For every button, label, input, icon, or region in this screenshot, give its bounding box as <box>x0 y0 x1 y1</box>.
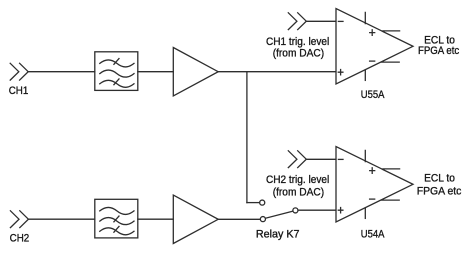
U55A - output pin wire <box>382 61 400 63</box>
wire CH2 input to filter FL2 <box>28 218 94 220</box>
relay K7 common contact <box>293 208 298 213</box>
amplifier A2 <box>173 195 218 243</box>
U54A negative supply pin <box>364 208 366 218</box>
label CH2 trig. level (from DAC) <box>266 174 329 198</box>
U54A + output sign <box>370 168 375 174</box>
svg-text:(from DAC): (from DAC) <box>273 48 324 60</box>
wire relay common to U54A + input <box>298 209 336 211</box>
label ECL to FPGA etc (lower) <box>417 173 462 198</box>
wire branch stub to relay contact <box>247 202 260 204</box>
wire amp A1 output to comparator U55A + input <box>218 71 336 73</box>
label U55A <box>361 89 385 101</box>
U55A negative supply pin <box>364 70 366 80</box>
relay K7 throw contact from CH1 branch <box>260 200 265 205</box>
U55A non-inverting input + sign <box>338 70 343 75</box>
svg-text:CH1: CH1 <box>9 85 29 97</box>
wire CH1 input to filter FL1 <box>28 71 95 73</box>
comparator U54A <box>336 147 413 223</box>
wire trig2 chevron to U54A - input <box>306 158 336 160</box>
relay K7 throw contact from CH2 <box>260 217 265 222</box>
svg-text:CH1 trig. level: CH1 trig. level <box>266 36 329 48</box>
label U54A <box>361 228 385 240</box>
U54A + output pin wire <box>383 168 400 170</box>
U54A - output sign <box>370 198 375 200</box>
node T junction to relay branch <box>246 72 248 203</box>
U55A positive supply pin <box>364 12 366 23</box>
svg-text:U55A: U55A <box>361 89 385 101</box>
svg-text:(from DAC): (from DAC) <box>273 186 324 198</box>
U54A - output pin wire <box>382 199 400 201</box>
svg-text:CH2 trig. level: CH2 trig. level <box>266 174 329 186</box>
U55A - output sign <box>370 60 375 62</box>
svg-text:ECL to: ECL to <box>424 173 455 185</box>
wire trig1 chevron to U55A - input <box>306 20 336 22</box>
label Relay K7 <box>256 228 300 240</box>
U54A inverting input - sign <box>338 158 343 160</box>
filter FL2 (band-pass) box <box>95 199 138 238</box>
label ECL to FPGA etc (upper) <box>418 35 460 58</box>
U55A inverting input - sign <box>338 20 343 22</box>
wire filter FL1 to amp A1 <box>138 71 174 73</box>
filter FL1 (band-pass) box <box>95 52 138 91</box>
connector CH2 trig. level chevron <box>288 151 306 168</box>
U54A positive supply pin <box>364 150 366 161</box>
amplifier A1 <box>173 48 218 96</box>
svg-text:Relay K7: Relay K7 <box>256 228 300 240</box>
connector CH1 trig. level chevron <box>288 13 306 30</box>
label CH1 <box>9 85 29 97</box>
U55A + output sign <box>370 30 375 36</box>
label CH2 <box>10 232 30 244</box>
svg-text:FPGA etc: FPGA etc <box>417 185 462 197</box>
connector CH2 input chevron <box>10 211 28 228</box>
U54A non-inverting input + sign <box>338 208 343 213</box>
wire amp A2 output to relay contact <box>218 218 260 220</box>
svg-text:CH2: CH2 <box>10 232 30 244</box>
U55A + output pin wire <box>383 30 400 32</box>
svg-text:U54A: U54A <box>361 228 385 240</box>
comparator U55A <box>336 9 413 85</box>
relay K7 blade <box>266 211 293 218</box>
label CH1 trig. level (from DAC) <box>266 36 329 60</box>
connector CH1 input chevron <box>10 63 28 80</box>
wire filter FL2 to amp A2 <box>138 218 174 220</box>
svg-text:FPGA etc: FPGA etc <box>418 45 460 57</box>
